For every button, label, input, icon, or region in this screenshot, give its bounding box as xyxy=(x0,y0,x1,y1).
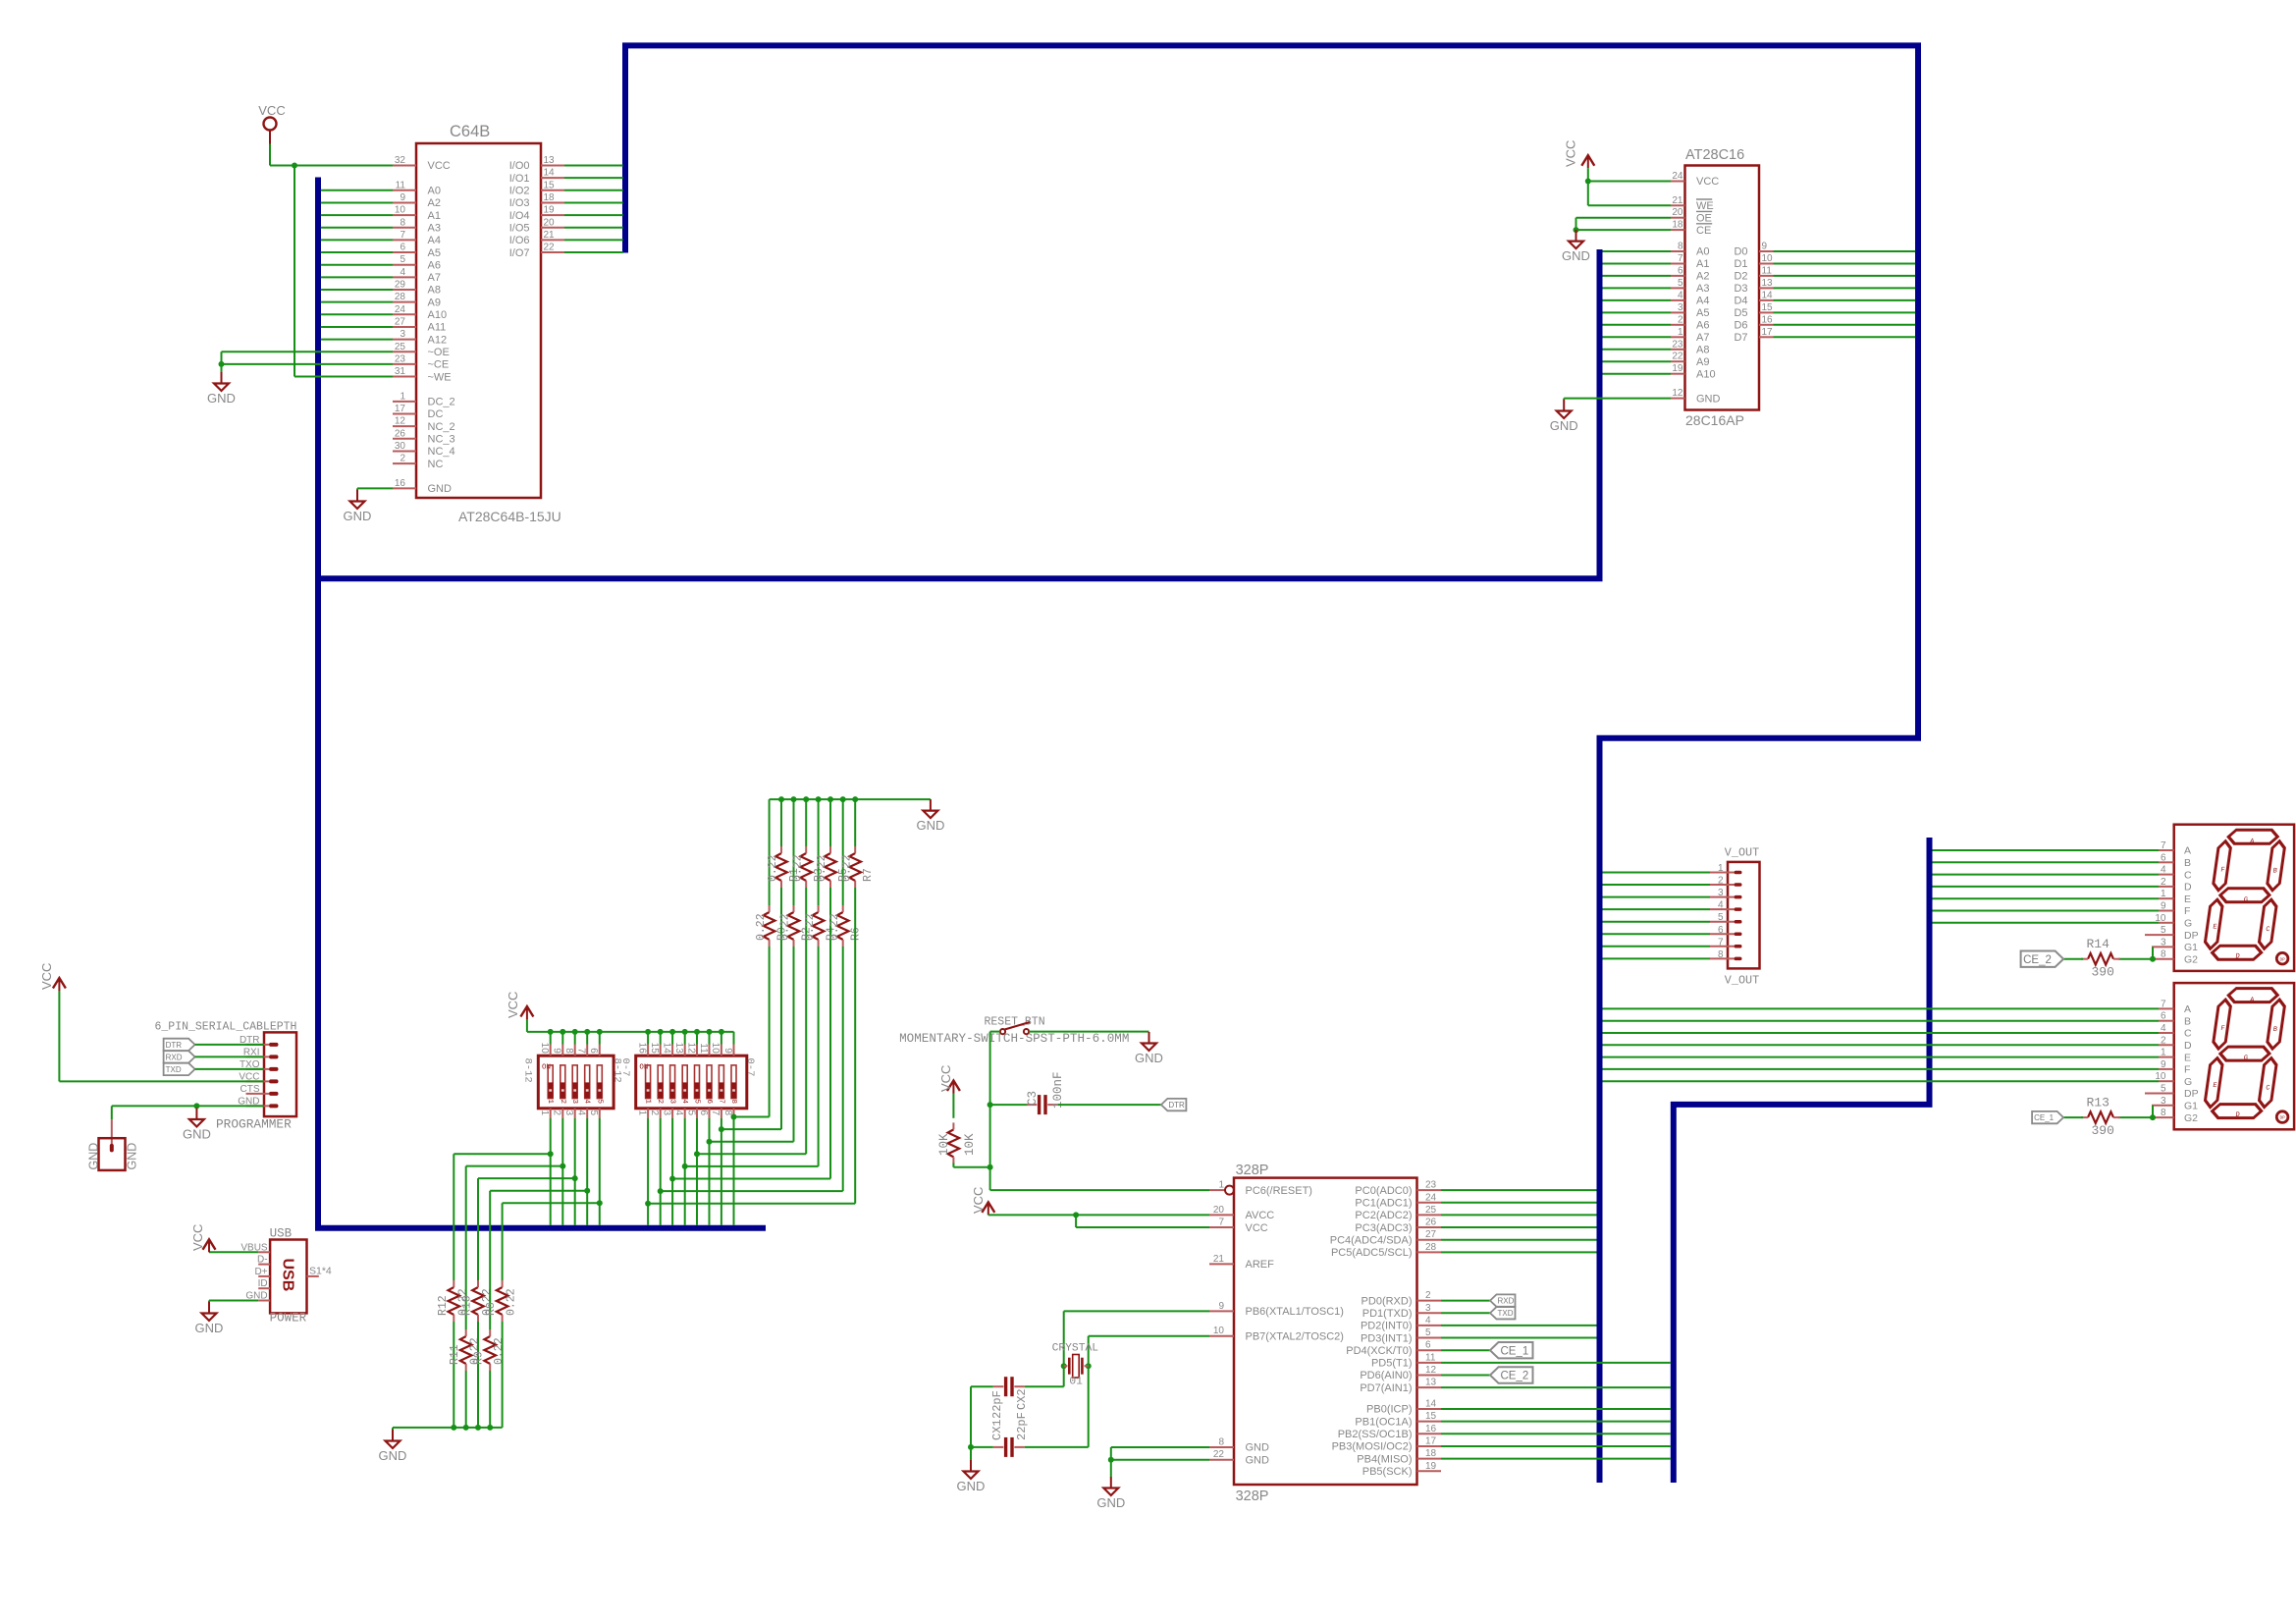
svg-text:16: 16 xyxy=(1762,314,1774,325)
svg-text:0.22: 0.22 xyxy=(840,854,853,882)
svg-text:0-7: 0-7 xyxy=(744,1058,756,1077)
svg-text:A9: A9 xyxy=(1696,356,1709,368)
svg-text:14: 14 xyxy=(661,1043,671,1055)
svg-text:5: 5 xyxy=(1425,1327,1431,1338)
svg-text:25: 25 xyxy=(395,342,406,352)
svg-text:1: 1 xyxy=(644,1099,652,1104)
svg-text:PROGRAMMER: PROGRAMMER xyxy=(216,1117,292,1132)
svg-text:9: 9 xyxy=(400,192,405,203)
svg-text:CE_1: CE_1 xyxy=(1501,1345,1529,1357)
svg-text:CX2: CX2 xyxy=(1015,1388,1029,1410)
svg-text:VCC: VCC xyxy=(1564,140,1578,167)
svg-text:A1: A1 xyxy=(428,210,441,222)
svg-text:22: 22 xyxy=(544,243,556,253)
svg-text:GND: GND xyxy=(916,818,944,833)
svg-text:GND: GND xyxy=(1246,1454,1270,1466)
svg-text:6: 6 xyxy=(2161,852,2166,863)
svg-text:G: G xyxy=(2184,918,2192,930)
svg-text:PC2(ADC2): PC2(ADC2) xyxy=(1355,1210,1412,1221)
svg-text:GND: GND xyxy=(183,1127,211,1142)
svg-text:8: 8 xyxy=(2161,949,2166,960)
svg-text:C3: C3 xyxy=(1026,1091,1040,1106)
svg-text:A5: A5 xyxy=(1696,307,1709,319)
svg-text:7: 7 xyxy=(400,230,405,241)
svg-text:32: 32 xyxy=(395,155,406,166)
svg-text:PC4(ADC4/SDA): PC4(ADC4/SDA) xyxy=(1330,1234,1413,1246)
svg-text:A6: A6 xyxy=(428,259,441,271)
svg-text:6: 6 xyxy=(400,243,405,253)
svg-text:D: D xyxy=(2184,1040,2192,1052)
svg-text:12: 12 xyxy=(395,416,406,427)
svg-text:15: 15 xyxy=(1762,302,1774,313)
svg-text:A: A xyxy=(2184,1003,2191,1015)
svg-text:26: 26 xyxy=(395,428,406,439)
svg-text:D: D xyxy=(2184,882,2192,893)
svg-text:PB0(ICP): PB0(ICP) xyxy=(1366,1404,1412,1416)
svg-text:4: 4 xyxy=(1718,900,1724,911)
svg-text:390: 390 xyxy=(2092,1123,2114,1138)
svg-text:5: 5 xyxy=(2161,1084,2166,1095)
svg-text:0-7: 0-7 xyxy=(619,1058,631,1077)
svg-text:23: 23 xyxy=(1425,1180,1437,1191)
svg-text:A0: A0 xyxy=(428,186,441,197)
svg-text:5: 5 xyxy=(693,1099,701,1104)
svg-text:7: 7 xyxy=(1718,937,1724,947)
svg-text:CX1: CX1 xyxy=(990,1419,1004,1440)
svg-text:12: 12 xyxy=(685,1043,696,1055)
svg-text:R9: R9 xyxy=(473,1351,486,1365)
svg-text:11: 11 xyxy=(1762,265,1773,276)
svg-text:PD3(INT1): PD3(INT1) xyxy=(1361,1332,1413,1344)
svg-text:21: 21 xyxy=(1672,195,1683,206)
svg-text:3: 3 xyxy=(1718,888,1724,898)
svg-text:D5: D5 xyxy=(1734,307,1747,319)
svg-text:23: 23 xyxy=(395,353,406,364)
svg-text:A8: A8 xyxy=(428,285,441,297)
svg-text:1: 1 xyxy=(1218,1180,1224,1191)
svg-text:A1: A1 xyxy=(1696,258,1709,270)
svg-text:17: 17 xyxy=(1425,1435,1437,1446)
svg-text:D7: D7 xyxy=(1734,332,1747,344)
svg-text:8: 8 xyxy=(729,1099,737,1104)
svg-text:12: 12 xyxy=(1425,1365,1437,1376)
svg-text:7: 7 xyxy=(2161,840,2166,851)
svg-text:USB: USB xyxy=(279,1259,295,1292)
svg-text:A4: A4 xyxy=(1696,296,1709,307)
svg-text:A10: A10 xyxy=(428,309,448,321)
svg-text:4: 4 xyxy=(1425,1315,1431,1326)
svg-text:A2: A2 xyxy=(1696,271,1709,283)
svg-text:6: 6 xyxy=(2161,1011,2166,1022)
svg-text:0.22: 0.22 xyxy=(828,913,841,941)
svg-text:0.22: 0.22 xyxy=(506,1288,518,1316)
svg-text:RXD: RXD xyxy=(1498,1297,1515,1306)
svg-text:PC0(ADC0): PC0(ADC0) xyxy=(1355,1185,1412,1197)
svg-text:D2: D2 xyxy=(1734,271,1747,283)
svg-text:100nF: 100nF xyxy=(1051,1071,1065,1109)
svg-text:2: 2 xyxy=(400,454,405,464)
svg-text:PB1(OC1A): PB1(OC1A) xyxy=(1355,1416,1412,1428)
svg-text:328P: 328P xyxy=(1236,1489,1269,1504)
svg-text:15: 15 xyxy=(544,180,556,190)
svg-text:NC_3: NC_3 xyxy=(428,434,455,446)
svg-text:1: 1 xyxy=(2161,889,2166,899)
svg-text:9: 9 xyxy=(2161,1059,2166,1070)
svg-text:22pF: 22pF xyxy=(1015,1412,1029,1440)
svg-text:24: 24 xyxy=(1672,171,1683,182)
svg-text:0.22: 0.22 xyxy=(755,913,768,941)
svg-text:GND: GND xyxy=(1246,1442,1270,1454)
svg-text:F: F xyxy=(2184,905,2190,917)
svg-text:7: 7 xyxy=(1218,1218,1224,1228)
svg-text:12: 12 xyxy=(1672,388,1683,399)
svg-text:R14: R14 xyxy=(2087,937,2110,951)
svg-text:GND: GND xyxy=(379,1448,407,1463)
svg-text:8: 8 xyxy=(1718,949,1724,960)
svg-text:3: 3 xyxy=(1678,302,1683,313)
svg-text:D-: D- xyxy=(257,1255,268,1266)
svg-text:4: 4 xyxy=(2161,865,2166,876)
svg-text:9: 9 xyxy=(1762,242,1768,252)
svg-text:3: 3 xyxy=(661,1110,671,1116)
svg-text:PD5(T1): PD5(T1) xyxy=(1371,1358,1413,1370)
svg-text:18: 18 xyxy=(1425,1448,1437,1459)
svg-text:I/O4: I/O4 xyxy=(509,210,530,222)
svg-text:3: 3 xyxy=(400,329,405,340)
svg-text:DP: DP xyxy=(2279,957,2285,962)
svg-text:D6: D6 xyxy=(1734,320,1747,332)
svg-text:~CE: ~CE xyxy=(428,359,450,371)
svg-text:10: 10 xyxy=(395,205,406,216)
svg-text:6: 6 xyxy=(1425,1340,1431,1351)
svg-text:2: 2 xyxy=(552,1110,562,1116)
svg-text:A: A xyxy=(2184,845,2191,857)
svg-text:10: 10 xyxy=(1762,253,1774,264)
svg-text:C64B: C64B xyxy=(450,123,490,140)
svg-text:28: 28 xyxy=(395,292,406,302)
svg-text:G2: G2 xyxy=(2184,953,2198,965)
svg-text:1: 1 xyxy=(546,1099,554,1104)
svg-text:G2: G2 xyxy=(2184,1112,2198,1124)
svg-text:5: 5 xyxy=(400,254,405,265)
svg-text:0.22: 0.22 xyxy=(804,913,817,941)
svg-text:GND: GND xyxy=(344,509,372,523)
svg-text:15: 15 xyxy=(649,1043,660,1055)
svg-text:I/O5: I/O5 xyxy=(509,222,530,234)
svg-text:A2: A2 xyxy=(428,197,441,209)
svg-text:GND: GND xyxy=(1562,248,1590,263)
svg-text:13: 13 xyxy=(673,1043,684,1055)
svg-text:AREF: AREF xyxy=(1246,1259,1275,1271)
svg-text:PC3(ADC3): PC3(ADC3) xyxy=(1355,1222,1412,1234)
svg-text:A10: A10 xyxy=(1696,368,1716,380)
svg-text:17: 17 xyxy=(395,404,406,414)
svg-text:GND: GND xyxy=(87,1143,101,1170)
svg-text:E: E xyxy=(2184,893,2191,905)
svg-text:13: 13 xyxy=(1762,278,1774,289)
svg-text:7: 7 xyxy=(2161,999,2166,1009)
svg-text:20: 20 xyxy=(1213,1205,1225,1216)
svg-text:CE_2: CE_2 xyxy=(1501,1371,1529,1382)
svg-text:2: 2 xyxy=(2161,877,2166,888)
svg-text:PB2(SS/OC1B): PB2(SS/OC1B) xyxy=(1338,1429,1413,1440)
svg-text:5: 5 xyxy=(685,1110,696,1116)
svg-text:5: 5 xyxy=(588,1110,599,1116)
svg-text:1: 1 xyxy=(539,1110,550,1116)
svg-text:24: 24 xyxy=(1425,1192,1437,1203)
svg-text:8: 8 xyxy=(1678,242,1683,252)
svg-text:29: 29 xyxy=(395,280,406,291)
svg-text:PD0(RXD): PD0(RXD) xyxy=(1362,1295,1413,1307)
svg-text:PB4(MISO): PB4(MISO) xyxy=(1357,1453,1412,1465)
svg-text:NC: NC xyxy=(428,459,444,470)
svg-text:2: 2 xyxy=(1678,314,1683,325)
svg-text:21: 21 xyxy=(544,230,556,241)
svg-text:VCC: VCC xyxy=(190,1224,205,1251)
svg-text:9: 9 xyxy=(552,1048,562,1054)
svg-text:PD4(XCK/T0): PD4(XCK/T0) xyxy=(1346,1345,1412,1357)
svg-text:22: 22 xyxy=(1672,352,1683,362)
svg-text:20: 20 xyxy=(1672,207,1683,218)
svg-text:2: 2 xyxy=(1718,876,1724,887)
svg-text:10: 10 xyxy=(710,1043,721,1055)
svg-text:0.22: 0.22 xyxy=(779,913,792,941)
svg-text:01: 01 xyxy=(1069,1377,1083,1388)
svg-text:17: 17 xyxy=(1762,327,1774,338)
svg-text:D+: D+ xyxy=(255,1267,268,1277)
svg-text:I/O3: I/O3 xyxy=(509,197,530,209)
svg-text:2: 2 xyxy=(2161,1035,2166,1046)
svg-text:GND: GND xyxy=(957,1479,986,1493)
svg-text:NC_4: NC_4 xyxy=(428,446,455,458)
svg-text:R11: R11 xyxy=(449,1344,461,1365)
svg-text:6: 6 xyxy=(1678,265,1683,276)
svg-text:3: 3 xyxy=(563,1110,574,1116)
svg-text:8: 8 xyxy=(563,1048,574,1054)
svg-text:24: 24 xyxy=(395,304,406,315)
svg-text:DTR: DTR xyxy=(1168,1101,1185,1110)
svg-text:27: 27 xyxy=(395,316,406,327)
svg-text:A0: A0 xyxy=(1696,246,1709,258)
svg-text:3: 3 xyxy=(2161,1096,2166,1107)
svg-text:VCC: VCC xyxy=(1696,176,1719,188)
svg-text:CE_1: CE_1 xyxy=(2034,1113,2055,1122)
svg-text:10K: 10K xyxy=(963,1133,977,1156)
svg-text:PB3(MOSI/OC2): PB3(MOSI/OC2) xyxy=(1332,1441,1413,1453)
svg-text:GND: GND xyxy=(1696,393,1721,405)
svg-text:GND: GND xyxy=(1135,1051,1163,1065)
svg-text:2: 2 xyxy=(559,1099,566,1104)
svg-text:B: B xyxy=(2184,1015,2191,1027)
svg-text:PD7(AIN1): PD7(AIN1) xyxy=(1360,1382,1412,1394)
svg-text:E: E xyxy=(2184,1052,2191,1063)
svg-text:~OE: ~OE xyxy=(428,347,450,358)
svg-text:V_OUT: V_OUT xyxy=(1725,974,1759,988)
svg-text:I/O6: I/O6 xyxy=(509,235,530,246)
svg-text:S1*4: S1*4 xyxy=(309,1266,332,1277)
svg-text:C: C xyxy=(2184,1028,2192,1040)
svg-text:16: 16 xyxy=(1425,1424,1437,1435)
svg-text:PC1(ADC1): PC1(ADC1) xyxy=(1355,1197,1412,1209)
svg-text:GND: GND xyxy=(428,483,453,495)
svg-text:GND: GND xyxy=(125,1143,138,1170)
svg-text:PB7(XTAL2/TOSC2): PB7(XTAL2/TOSC2) xyxy=(1246,1330,1344,1342)
svg-text:MOMENTARY-SWITCH-SPST-PTH-6.0M: MOMENTARY-SWITCH-SPST-PTH-6.0MM xyxy=(899,1032,1129,1046)
svg-text:14: 14 xyxy=(1762,290,1774,300)
svg-text:2: 2 xyxy=(649,1110,660,1116)
svg-text:4: 4 xyxy=(400,267,405,278)
svg-text:5: 5 xyxy=(1678,278,1683,289)
svg-text:A4: A4 xyxy=(428,235,441,246)
svg-text:8: 8 xyxy=(2161,1108,2166,1118)
svg-text:10: 10 xyxy=(539,1043,550,1055)
svg-text:6: 6 xyxy=(1718,925,1724,936)
svg-text:14: 14 xyxy=(544,168,556,179)
svg-text:9: 9 xyxy=(2161,901,2166,912)
svg-text:VCC: VCC xyxy=(506,992,520,1018)
svg-text:22pF: 22pF xyxy=(990,1390,1004,1419)
svg-text:3: 3 xyxy=(2161,937,2166,947)
svg-text:DC: DC xyxy=(428,408,444,420)
svg-text:R7: R7 xyxy=(862,868,875,882)
svg-text:11: 11 xyxy=(698,1043,709,1054)
svg-text:VCC: VCC xyxy=(258,103,285,118)
svg-text:PD6(AIN0): PD6(AIN0) xyxy=(1360,1370,1412,1381)
svg-text:1: 1 xyxy=(1678,327,1683,338)
svg-text:1: 1 xyxy=(2161,1048,2166,1058)
svg-text:13: 13 xyxy=(1425,1378,1437,1388)
svg-text:G1: G1 xyxy=(2184,942,2198,953)
svg-text:25: 25 xyxy=(1425,1205,1437,1216)
svg-text:R13: R13 xyxy=(2087,1096,2109,1110)
svg-text:GND: GND xyxy=(195,1321,224,1335)
svg-text:6: 6 xyxy=(698,1110,709,1116)
svg-text:VCC: VCC xyxy=(428,160,451,172)
svg-text:2: 2 xyxy=(1425,1290,1431,1301)
svg-text:AT28C64B-15JU: AT28C64B-15JU xyxy=(458,509,561,524)
svg-text:A6: A6 xyxy=(1696,320,1709,332)
svg-text:A5: A5 xyxy=(428,247,441,259)
svg-text:9: 9 xyxy=(722,1048,733,1054)
svg-text:28: 28 xyxy=(1425,1242,1437,1253)
svg-text:328P: 328P xyxy=(1236,1163,1269,1178)
svg-text:0.22: 0.22 xyxy=(493,1337,506,1365)
svg-text:R8: R8 xyxy=(485,1302,498,1316)
svg-text:D0: D0 xyxy=(1734,246,1747,258)
svg-text:10K: 10K xyxy=(937,1133,951,1156)
svg-text:11: 11 xyxy=(396,180,406,190)
svg-text:15: 15 xyxy=(1425,1411,1437,1422)
svg-text:G: G xyxy=(2184,1076,2192,1088)
svg-text:A9: A9 xyxy=(428,297,441,308)
svg-text:POWER: POWER xyxy=(270,1311,307,1325)
svg-text:DP: DP xyxy=(2279,1116,2285,1121)
svg-text:19: 19 xyxy=(544,205,556,216)
svg-text:18: 18 xyxy=(544,192,556,203)
svg-text:390: 390 xyxy=(2092,965,2114,980)
svg-text:4: 4 xyxy=(673,1110,684,1116)
svg-text:D3: D3 xyxy=(1734,283,1747,295)
svg-text:31: 31 xyxy=(395,366,406,377)
svg-text:19: 19 xyxy=(1425,1461,1437,1472)
svg-text:1: 1 xyxy=(1718,863,1724,874)
svg-text:R12: R12 xyxy=(437,1295,450,1316)
svg-text:PB6(XTAL1/TOSC1): PB6(XTAL1/TOSC1) xyxy=(1246,1306,1344,1318)
svg-text:1: 1 xyxy=(636,1110,647,1116)
svg-text:16: 16 xyxy=(395,478,406,489)
svg-text:22: 22 xyxy=(1213,1449,1225,1460)
svg-text:6: 6 xyxy=(705,1099,713,1104)
svg-text:PC5(ADC5/SCL): PC5(ADC5/SCL) xyxy=(1331,1247,1413,1259)
svg-text:G1: G1 xyxy=(2184,1101,2198,1112)
svg-text:VCC: VCC xyxy=(971,1187,986,1214)
svg-text:TXD: TXD xyxy=(1498,1309,1514,1318)
svg-text:0.22: 0.22 xyxy=(767,854,779,882)
svg-text:CE_2: CE_2 xyxy=(2023,954,2052,966)
svg-text:I/O7: I/O7 xyxy=(509,247,530,259)
svg-text:7: 7 xyxy=(717,1099,724,1104)
svg-text:V_OUT: V_OUT xyxy=(1725,846,1759,860)
svg-text:1: 1 xyxy=(400,391,405,402)
svg-text:A3: A3 xyxy=(428,222,441,234)
svg-text:13: 13 xyxy=(544,155,556,166)
svg-text:PC6(/RESET): PC6(/RESET) xyxy=(1246,1185,1312,1197)
svg-text:8: 8 xyxy=(400,217,405,228)
svg-text:I/O2: I/O2 xyxy=(509,186,530,197)
svg-text:7: 7 xyxy=(1678,253,1683,264)
svg-text:23: 23 xyxy=(1672,339,1683,350)
svg-text:PD1(TXD): PD1(TXD) xyxy=(1362,1308,1413,1320)
svg-text:A8: A8 xyxy=(1696,345,1709,356)
svg-text:DP: DP xyxy=(2184,930,2199,942)
svg-text:VCC: VCC xyxy=(938,1065,953,1092)
svg-text:16: 16 xyxy=(636,1043,647,1055)
svg-text:DP: DP xyxy=(2184,1088,2199,1100)
svg-text:A7: A7 xyxy=(428,272,441,284)
svg-text:A11: A11 xyxy=(428,322,447,334)
svg-text:A7: A7 xyxy=(1696,332,1709,344)
svg-text:6: 6 xyxy=(588,1048,599,1054)
svg-text:5: 5 xyxy=(595,1099,603,1104)
svg-text:5: 5 xyxy=(1718,912,1724,923)
svg-text:28C16AP: 28C16AP xyxy=(1685,412,1744,428)
svg-text:8: 8 xyxy=(1218,1437,1224,1448)
svg-text:11: 11 xyxy=(1425,1352,1436,1363)
svg-text:CE: CE xyxy=(1696,225,1711,237)
svg-text:AT28C16: AT28C16 xyxy=(1685,147,1744,163)
svg-text:C: C xyxy=(2184,869,2192,881)
svg-text:PD2(INT0): PD2(INT0) xyxy=(1361,1321,1413,1332)
svg-text:WE: WE xyxy=(1696,200,1714,212)
svg-text:DC_2: DC_2 xyxy=(428,397,455,408)
svg-text:3: 3 xyxy=(1425,1303,1431,1314)
svg-text:I/O0: I/O0 xyxy=(509,160,530,172)
svg-text:4: 4 xyxy=(1678,290,1683,300)
svg-text:20: 20 xyxy=(544,217,556,228)
svg-text:9: 9 xyxy=(1218,1301,1224,1312)
svg-text:27: 27 xyxy=(1425,1229,1437,1240)
svg-text:NC_2: NC_2 xyxy=(428,421,455,433)
svg-text:14: 14 xyxy=(1425,1399,1437,1410)
svg-text:3: 3 xyxy=(570,1099,578,1104)
svg-text:R10: R10 xyxy=(461,1295,474,1316)
svg-text:26: 26 xyxy=(1425,1218,1437,1228)
svg-text:DTR: DTR xyxy=(166,1041,183,1050)
svg-text:F: F xyxy=(2184,1064,2190,1076)
svg-text:7: 7 xyxy=(710,1110,721,1116)
svg-text:0.22: 0.22 xyxy=(816,854,828,882)
svg-text:7: 7 xyxy=(576,1048,587,1054)
